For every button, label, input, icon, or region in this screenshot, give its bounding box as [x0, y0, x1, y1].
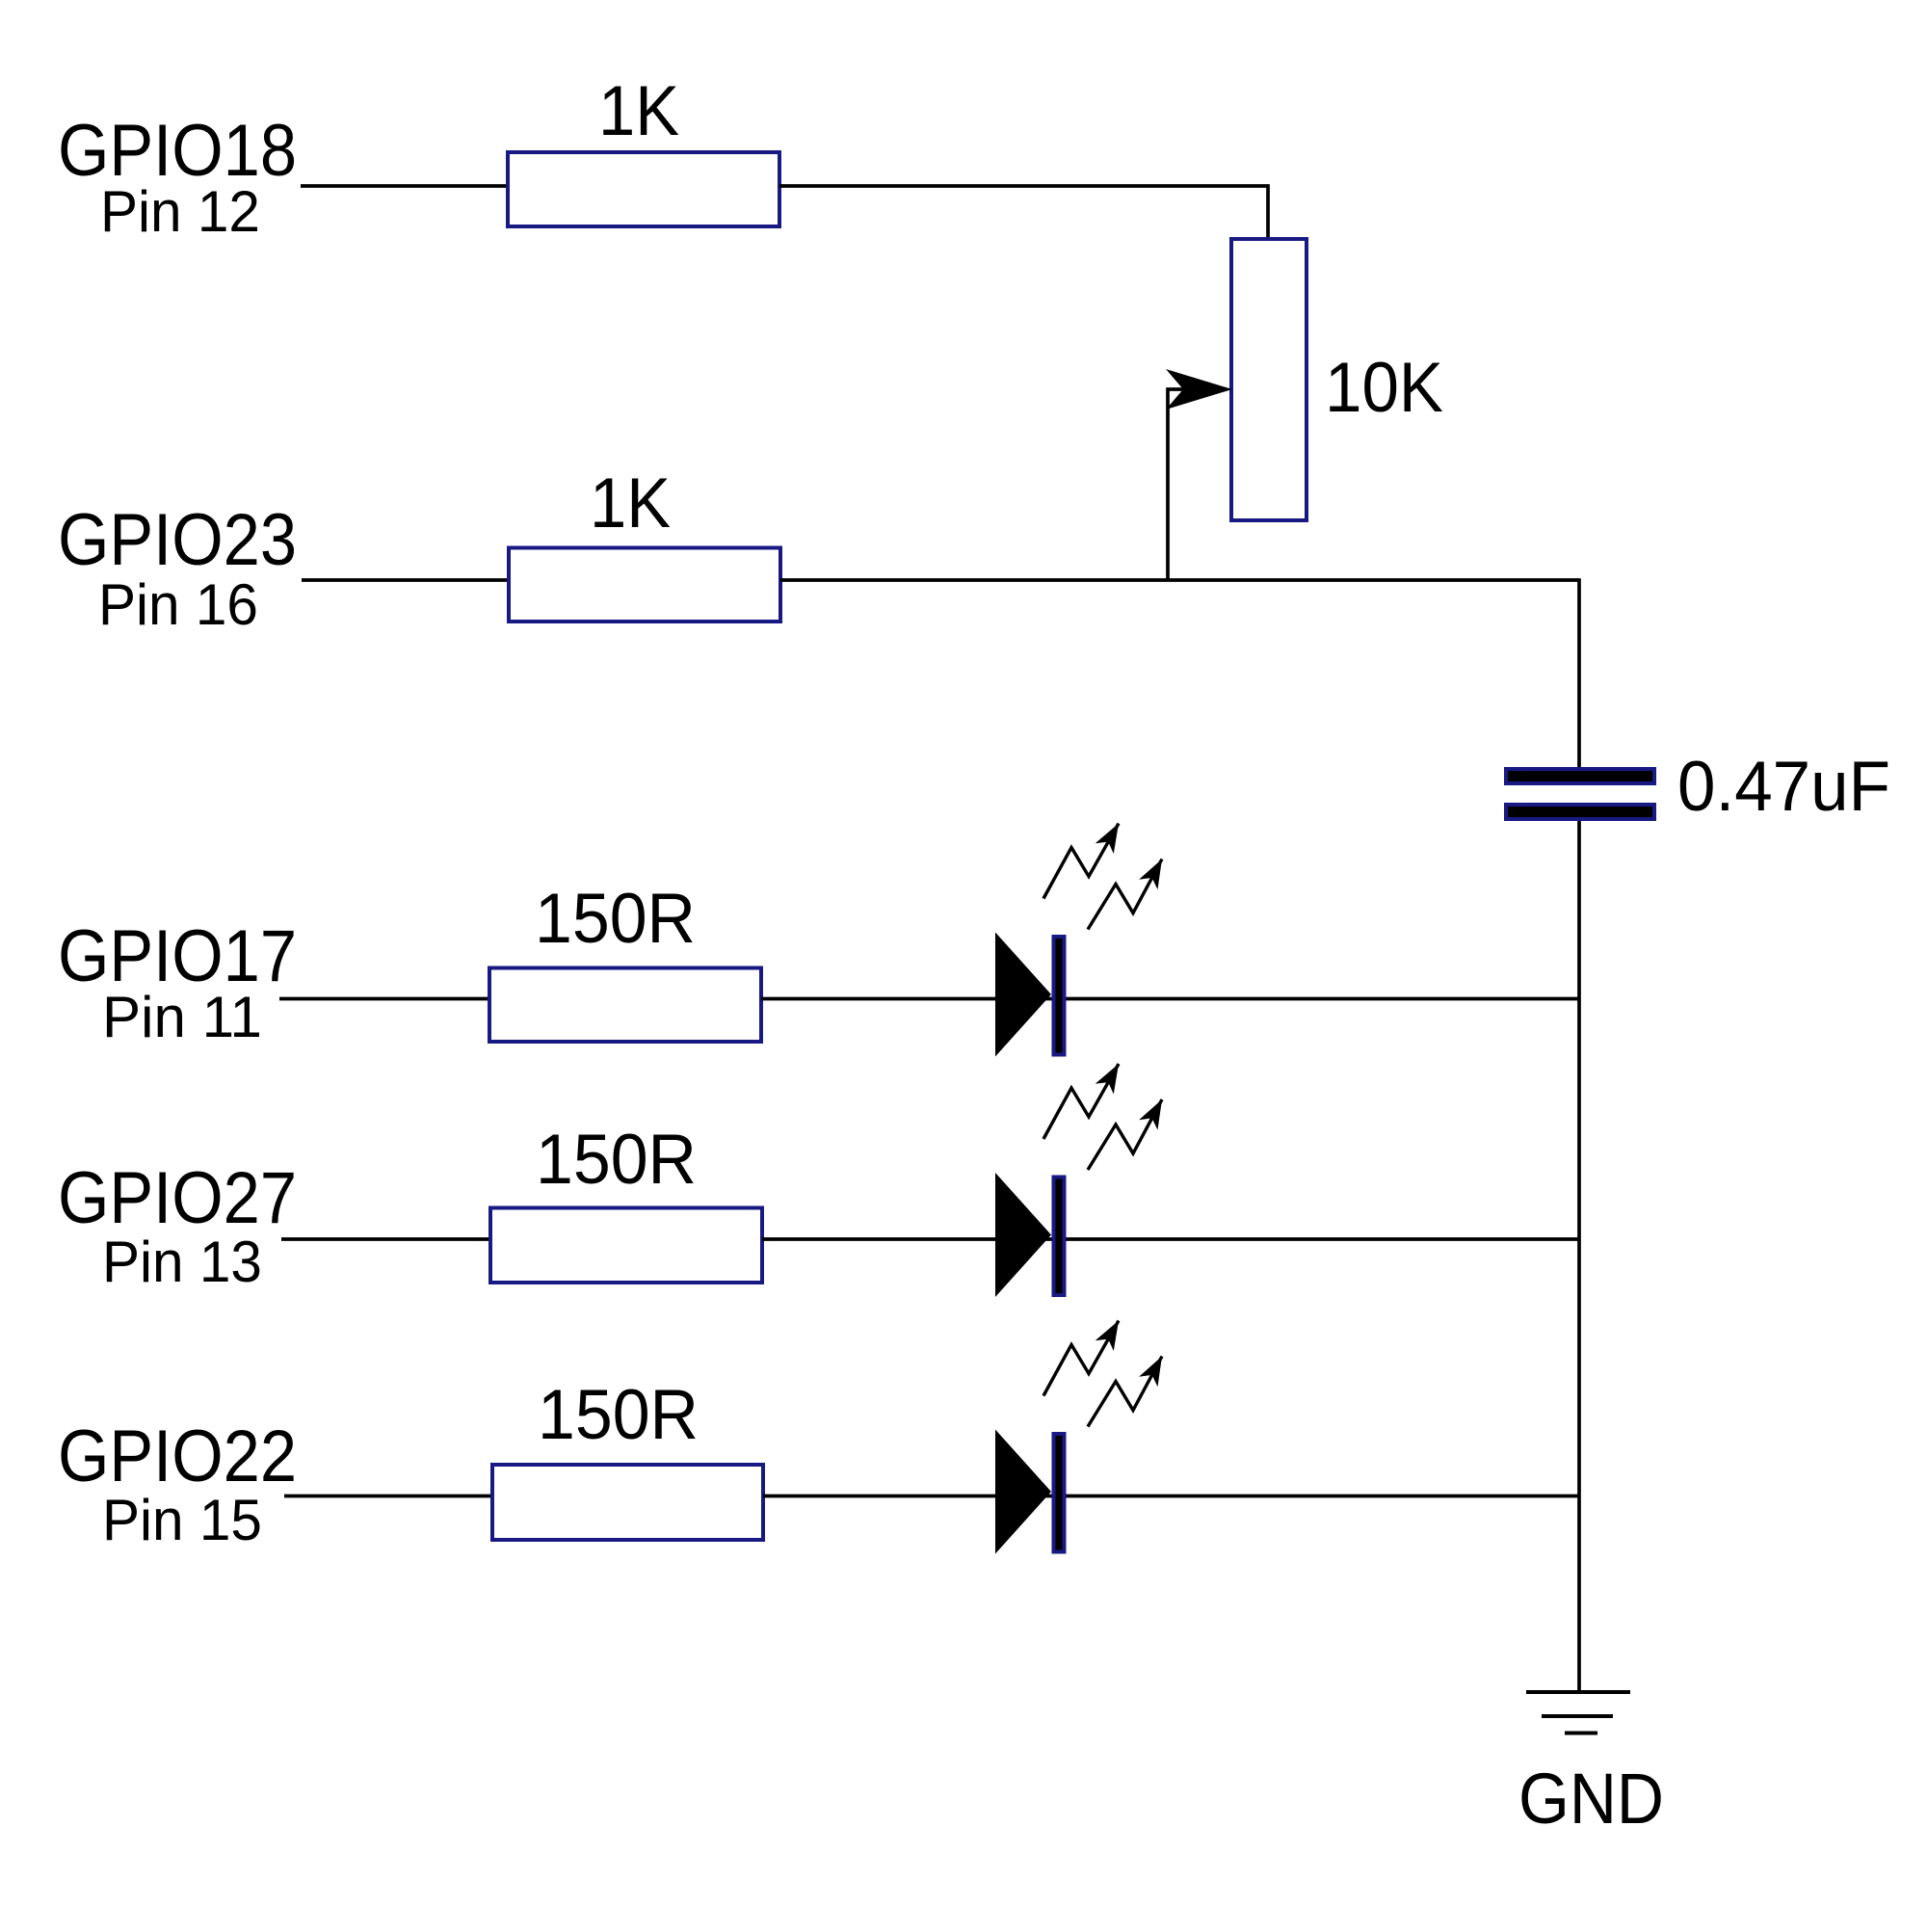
ground symbol [1526, 1692, 1630, 1734]
svg-text:150R: 150R [538, 1376, 699, 1454]
svg-text:1K: 1K [598, 72, 679, 150]
node GPIO18 (Pin 12) label [58, 110, 297, 244]
wire GPIO17 to R3 [279, 997, 489, 1001]
node GPIO23 (Pin 16) label [58, 499, 297, 637]
svg-text:Pin 11: Pin 11 [102, 985, 262, 1049]
LED D3 anode triangle [995, 1430, 1051, 1554]
wire R1 to potentiometer top [779, 186, 1268, 239]
svg-text:Pin 13: Pin 13 [102, 1230, 262, 1294]
LED D2 light arrow 2 [1088, 1099, 1162, 1170]
wire R3 to bus through LED D1 [761, 997, 1579, 1001]
LED D1 light arrow 2 [1088, 860, 1162, 930]
node GPIO22 (Pin 15) label [58, 1416, 297, 1552]
resistor R4 150R [490, 1208, 762, 1284]
wire bus capacitor to ground [1577, 821, 1581, 1694]
resistor R1 1K [508, 152, 779, 226]
potentiometer RV1 10K body [1231, 239, 1307, 520]
svg-text:GND: GND [1518, 1759, 1664, 1839]
svg-text:GPIO23: GPIO23 [58, 499, 297, 581]
svg-text:GPIO22: GPIO22 [58, 1416, 297, 1497]
wire R5 to bus through LED D3 [763, 1495, 1579, 1498]
svg-text:0.47uF: 0.47uF [1677, 748, 1890, 826]
svg-text:Pin 15: Pin 15 [102, 1488, 262, 1552]
node GPIO27 (Pin 13) label [58, 1157, 297, 1294]
resistor R2 1K [509, 548, 780, 622]
wire wiper from GPIO23 net [1168, 389, 1206, 580]
LED D2 light arrow 1 [1043, 1064, 1119, 1139]
wire R2 to right bus [780, 578, 1579, 582]
svg-text:GPIO27: GPIO27 [58, 1157, 297, 1239]
capacitor C1 0.47uF plate top [1506, 769, 1654, 783]
LED D1 cathode bar [1054, 937, 1065, 1055]
LED D1 light arrow 1 [1043, 824, 1119, 899]
LED D2 cathode bar [1054, 1178, 1065, 1296]
svg-text:150R: 150R [535, 880, 696, 958]
wire GPIO27 to R4 [281, 1237, 490, 1241]
svg-text:10K: 10K [1325, 349, 1443, 427]
resistor R3 150R [489, 968, 761, 1043]
wire R4 to bus through LED D2 [762, 1237, 1579, 1241]
LED D3 light arrow 2 [1088, 1357, 1162, 1427]
wire GPIO22 to R5 [284, 1495, 492, 1498]
wiper arrowhead [1166, 369, 1232, 410]
LED D3 cathode bar [1054, 1434, 1065, 1552]
wire GPIO23 to R2 [302, 578, 509, 582]
svg-text:Pin 16: Pin 16 [98, 572, 258, 637]
svg-text:150R: 150R [536, 1121, 697, 1199]
resistor R5 150R [492, 1465, 763, 1540]
svg-text:1K: 1K [590, 464, 671, 543]
wire bus down to capacitor [1577, 578, 1581, 769]
svg-text:Pin 12: Pin 12 [100, 179, 260, 244]
wire GPIO18 to R1 [301, 184, 508, 188]
node GPIO17 (Pin 11) label [58, 915, 297, 1049]
LED D2 anode triangle [995, 1173, 1051, 1297]
capacitor C1 0.47uF plate bottom [1506, 805, 1654, 819]
LED D1 anode triangle [995, 933, 1051, 1057]
LED D3 light arrow 1 [1043, 1321, 1119, 1396]
